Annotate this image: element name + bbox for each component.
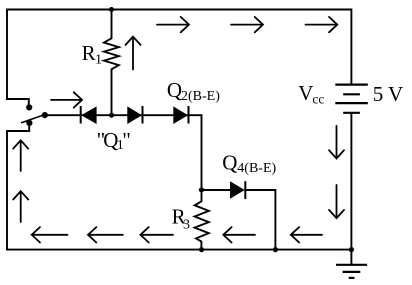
node R3 top junction <box>199 187 204 192</box>
current arrows <box>13 17 344 243</box>
switch lever <box>21 115 44 123</box>
wire switch pole to Q1 diode row <box>46 114 81 116</box>
svg-text:Q: Q <box>222 150 237 174</box>
arrow left side up 1 <box>13 140 28 171</box>
svg-text:3: 3 <box>183 217 190 232</box>
arrow bottom 5 (left) <box>291 227 322 242</box>
svg-text:5 V: 5 V <box>373 82 404 106</box>
arrow right side down 1 <box>329 126 344 159</box>
svg-text:R: R <box>82 41 96 65</box>
arrow bottom 1 (left) <box>32 227 68 242</box>
resistor R1 <box>104 10 119 116</box>
battery Vcc <box>335 85 368 113</box>
node R1 / Q1 diode row junction <box>109 113 114 118</box>
arrow bottom 4 (left) <box>223 227 255 242</box>
wire upper switch contact stub <box>7 99 29 105</box>
arrow bottom 2 (left) <box>88 227 123 242</box>
arrow right side down 2 <box>329 185 344 218</box>
svg-text:": " <box>122 128 131 152</box>
resistor R3 <box>195 190 209 250</box>
svg-text:2(B-E): 2(B-E) <box>181 89 220 104</box>
arrow bottom 3 (left) <box>140 227 173 242</box>
arrow beside R1 (up) <box>126 37 141 70</box>
arrow top 3 (right) <box>306 17 338 32</box>
diode Q1 B-E left (pointing left) <box>80 106 82 124</box>
svg-text:4(B-E): 4(B-E) <box>237 161 276 176</box>
svg-text:V: V <box>298 81 313 105</box>
wire battery bottom to ground <box>350 114 352 264</box>
node Q4 wire / bottom rail junction <box>273 247 278 252</box>
ground <box>336 265 367 278</box>
wire bottom rail <box>7 249 351 251</box>
wire Q1 diode row to corner and down to R3 <box>81 115 202 190</box>
node R3 bottom junction <box>199 247 204 252</box>
switch lower contact dot <box>26 120 32 126</box>
node top rail / R1 junction <box>109 7 114 12</box>
wire top rail and left upper wire <box>7 10 351 100</box>
wire Q4 row left segment <box>202 189 231 191</box>
diode Q4 B-E (pointing right) <box>230 181 245 199</box>
wire Q4 row right segment down to bottom rail <box>245 190 275 250</box>
node ground / bottom rail junction <box>349 247 354 252</box>
switch upper contact dot <box>26 104 32 110</box>
arrow top 1 (right) <box>157 17 189 32</box>
arrow left side up 2 <box>13 191 28 222</box>
arrow switch (right) <box>51 92 82 107</box>
diode Q2 B-E (pointing right) <box>173 106 188 124</box>
svg-text:1: 1 <box>95 52 102 67</box>
arrow top 2 (right) <box>231 17 263 32</box>
switch pole dot <box>42 112 48 118</box>
diode Q1 B-E right (pointing right) <box>127 106 142 124</box>
svg-text:cc: cc <box>312 92 324 107</box>
wire lower switch contact stub and left lower wire <box>7 126 29 250</box>
svg-text:Q: Q <box>167 78 182 102</box>
